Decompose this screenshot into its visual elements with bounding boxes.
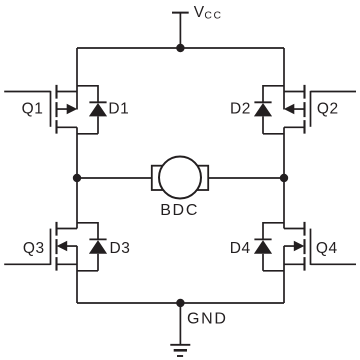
svg-text:GND: GND <box>187 311 228 328</box>
wire: Q2 source to node B <box>283 127 285 178</box>
wire: node B to Q4 drain <box>283 178 285 229</box>
wire: bottom GND rail <box>77 302 284 304</box>
diode D2 <box>254 86 284 134</box>
svg-text:Q2: Q2 <box>317 100 339 117</box>
transistor Q4 <box>284 222 356 271</box>
svg-text:D1: D1 <box>108 100 129 117</box>
svg-text:D2: D2 <box>230 100 251 117</box>
node: GND junction dot <box>176 299 184 307</box>
wire: motor to node B <box>208 177 284 179</box>
svg-text:BDC: BDC <box>160 202 199 219</box>
wire: node A to Q3 drain <box>76 178 78 229</box>
ground <box>170 303 190 356</box>
wire: Q1 source to node A <box>76 127 78 178</box>
wire: rail to Q2 drain <box>283 48 285 110</box>
svg-text:D3: D3 <box>110 240 131 257</box>
wire: Q3 source to GND rail <box>76 246 78 303</box>
svg-text:D4: D4 <box>230 240 251 257</box>
wire: rail to Q1 drain <box>76 48 78 110</box>
transistor Q2 <box>284 85 356 134</box>
power VCC symbol <box>172 13 189 48</box>
label VCC <box>194 4 223 22</box>
transistor Q3 <box>4 222 77 271</box>
svg-text:Q3: Q3 <box>23 240 45 257</box>
node B: right motor terminal junction <box>280 174 288 182</box>
wire: node A to motor <box>77 177 152 179</box>
svg-text:Q1: Q1 <box>22 100 44 117</box>
node A: left motor terminal junction <box>73 174 81 182</box>
wire: Q4 source to GND rail <box>283 246 285 303</box>
svg-text:CC: CC <box>204 11 222 22</box>
svg-text:Q4: Q4 <box>316 240 338 257</box>
motor BDC <box>152 157 208 199</box>
diode D3 <box>77 223 107 271</box>
svg-text:V: V <box>194 4 205 21</box>
node: VCC junction dot <box>176 44 184 52</box>
diode D4 <box>254 223 284 271</box>
diode D1 <box>77 86 107 134</box>
transistor Q1 <box>4 85 77 134</box>
wire: top VCC rail <box>77 47 284 49</box>
